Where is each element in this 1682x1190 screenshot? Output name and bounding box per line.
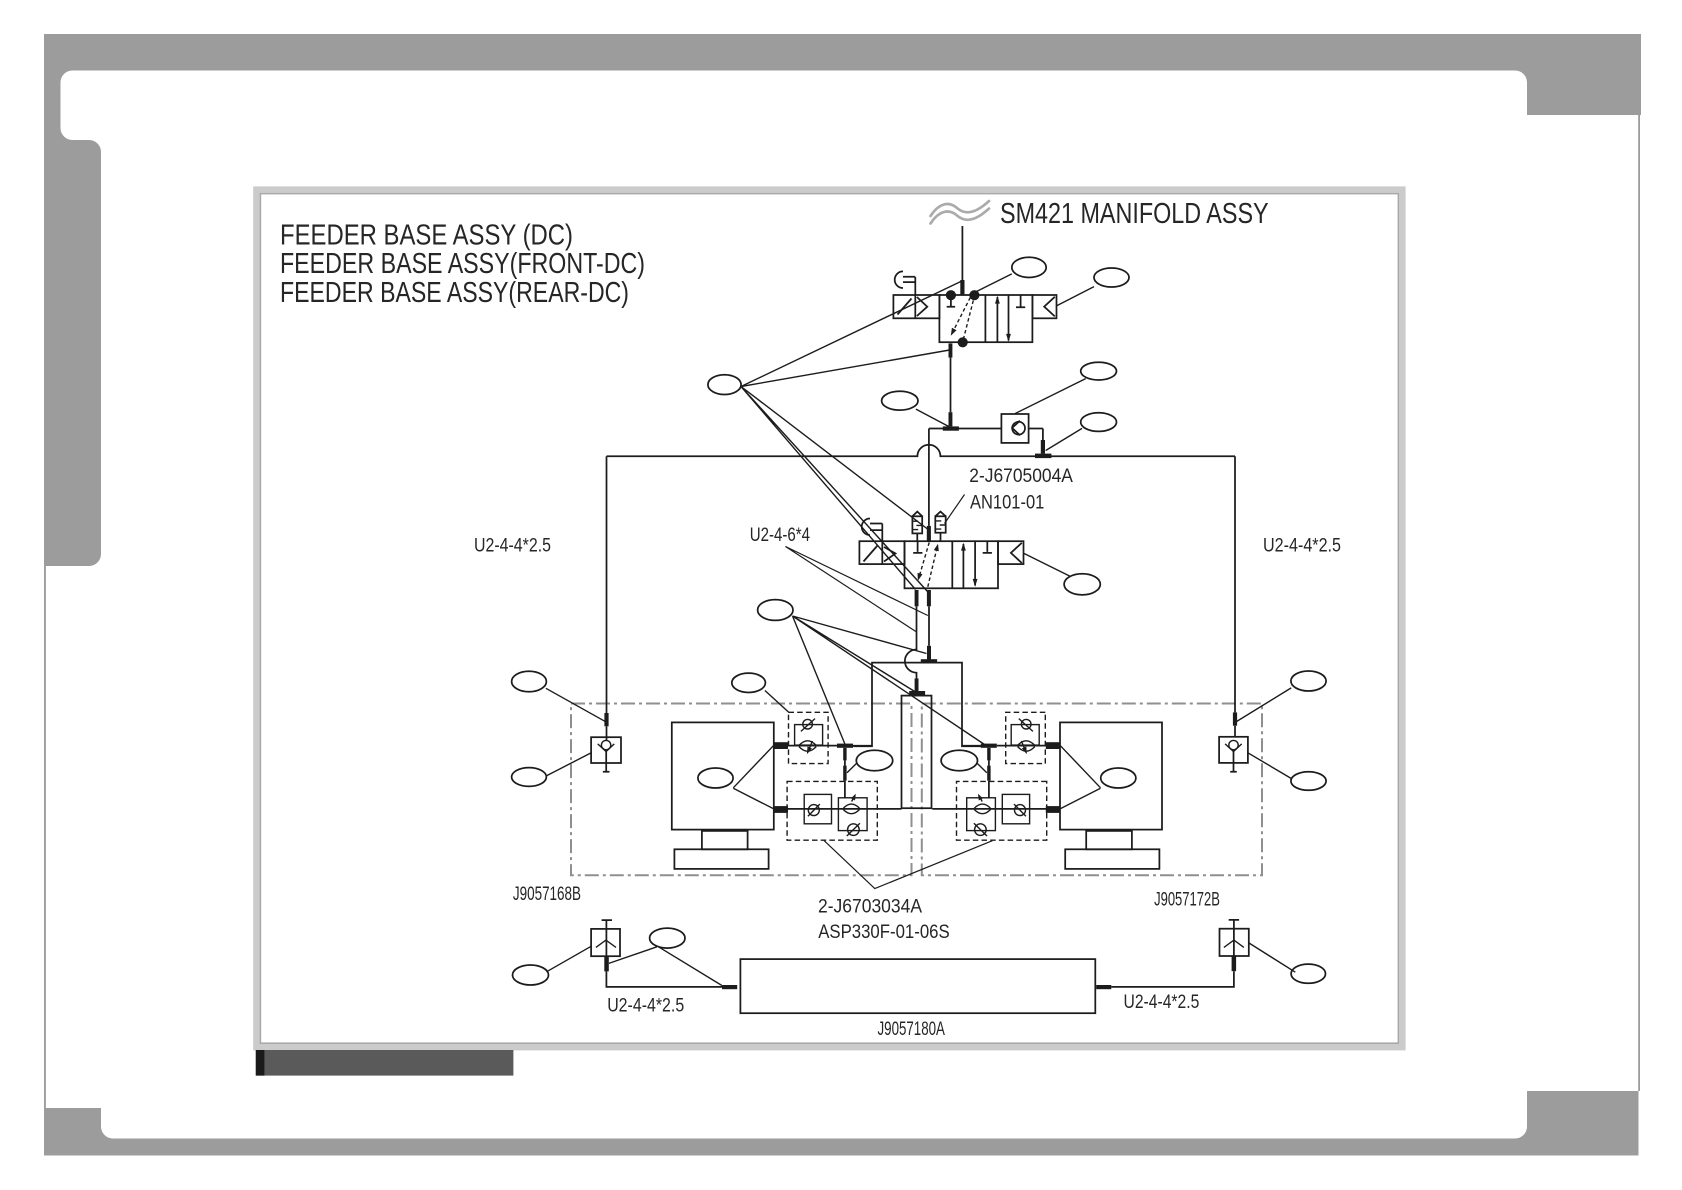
fitting: B-line tee [909,691,925,695]
fitting: branch bar 2 [843,766,846,781]
svg-text:SM421 MANIFOLD ASSY: SM421 MANIFOLD ASSY [1000,198,1269,230]
lower throttle body [838,798,867,831]
lower throttle arrow [852,795,855,801]
valve V2 crossed dashed line B [928,547,938,587]
wire: fitting gap left column [606,726,608,740]
svg-text:2-J6703034A: 2-J6703034A [818,896,922,918]
leaders from FB2 [793,616,985,745]
callout balloon right-top [1291,671,1326,691]
wire: lower flow line [774,808,902,810]
valve V1 left solenoid box [893,295,939,318]
fitting: check branch bar [1041,440,1045,454]
fitting: A-line tee [921,659,937,663]
valve V1 straight flow up arrow [996,297,998,342]
silencer AN101-01 right hat [935,512,945,517]
callout balloon left-top [512,671,547,691]
valve V2 straight flow up arrow [962,544,964,588]
valve V2 straight flow down arrow [974,541,976,585]
valve V1 pilot chevron [917,297,927,316]
diagram border inner dark line [260,194,1398,1044]
fitting: manifold inlet bar [949,412,953,426]
check valve ball [1012,422,1025,435]
svg-text:U2-4-4*2.5: U2-4-4*2.5 [1124,991,1200,1013]
right inlet check seat V [1225,744,1242,752]
wire: supply drop to valve V2 [928,429,930,526]
valve V1 right pilot box [1032,295,1056,318]
page frame: fillet column to left tab [61,128,73,140]
lower check slash [808,804,820,816]
svg-text:FEEDER BASE ASSY(REAR-DC): FEEDER BASE ASSY(REAR-DC) [280,277,629,309]
fitting: branch bar 1 [843,748,846,761]
valve V1 manual override semicircle [895,271,903,288]
callout balloon B4 [1081,413,1117,432]
page frame: fillet bar to bottom-right block [1515,1127,1527,1139]
fitting: upper tee [837,744,853,748]
wire: branch drop [844,760,846,797]
callout balloon right-bottom [1291,772,1326,791]
fan balloon FB2 [758,600,793,621]
wire: bottom-right run [1111,971,1234,987]
leader B3 to check valve box [1015,379,1086,414]
sub-manifold inner channel [902,696,932,809]
cylinder callout balloon [698,768,733,788]
cylinder port B fitting [774,806,788,813]
svg-text:U2-4-6*4: U2-4-6*4 [750,524,810,546]
bottom manifold J9057180A [740,959,1095,1013]
valve V1 solenoid slash [898,299,912,315]
lower ball slash [847,823,860,836]
right inlet stub and cap [1230,752,1237,772]
valve V2 manual override semicircle [862,519,870,536]
wire: supply drop from break mark [961,226,963,281]
callout balloon B5 [1064,574,1100,595]
leader right-top balloon [1237,688,1292,722]
leader B4 to branch fitting [1046,428,1082,450]
lower check body [804,794,831,823]
black end of accent bar [256,1050,265,1076]
check valve box 2-J6705004A [1001,414,1028,443]
wire: left column drop [606,456,608,713]
wire: upper manifold run [929,429,1043,441]
speed controller lower dashed box [787,781,877,840]
valve V2 blocked port T mid [983,541,992,553]
callout balloon B3 [1081,362,1117,380]
sub-manifold outer channel [853,663,981,747]
fitting: right column into box [1233,712,1237,725]
dash-dot box J9057172B [922,704,1262,876]
valve V2 body [905,541,999,588]
leaders cylinder balloon to ports [733,745,774,809]
svg-text:J9057172B: J9057172B [1154,889,1220,911]
callout balloon B1 [1012,257,1046,277]
leader left-bottom balloon [546,753,591,776]
callout balloon bottom-left [513,965,549,985]
fitting below bottom-right square [1232,956,1237,971]
valve V1 override link lines [903,277,915,295]
fitting: A-line bar [927,646,931,660]
bottom-left relief square [591,929,620,956]
leader bottom-right balloon [1249,943,1296,972]
controller inner body [795,725,823,746]
valve V1 port dot 2 [969,290,979,300]
wire: right column drop [1234,456,1236,712]
page frame: left thin line [44,566,46,1108]
controller throttle lens [799,741,816,751]
fitting: manifold inlet tee [943,426,959,430]
valve V2 blocked port T left [913,541,922,553]
silencer right stripes [935,521,945,529]
fitting: B-line bar [915,679,919,692]
valve V1 crossed flow dashed line A [952,298,970,334]
valve V1 crossed flow dashed line B [963,301,973,340]
wire: bottom-left run [606,971,722,987]
valve V1 blocked port T [947,300,955,307]
right feeder circuit (mirror of left) [932,712,1162,869]
check valve seat [1012,421,1020,436]
page frame: bottom bar [44,1139,1639,1156]
controller throttle arrow [808,741,813,753]
valve V2 body divider [951,541,953,588]
page frame: left column [44,34,61,140]
valve V2 right chevron [1011,543,1022,563]
valve V2 arrowhead A [918,573,923,581]
leader branch balloon [847,764,856,773]
bottom-right relief square [1220,929,1249,956]
silencer AN101-01 left hat [912,512,922,517]
callout balloon left-bottom [512,768,547,787]
callout balloon B6 [732,673,766,692]
wire: upper flow line [774,745,872,747]
leader B7 to manifold inlet [916,409,949,427]
svg-text:FEEDER BASE ASSY (DC): FEEDER BASE ASSY (DC) [280,219,573,251]
callout balloon bottom-mid [650,928,685,948]
right inlet check ball [1229,740,1238,749]
bottom-left relief stem and cap [602,920,612,956]
svg-text:U2-4-4*2.5: U2-4-4*2.5 [607,994,684,1016]
wire: V2 A-line [928,606,930,646]
callout balloon B2 [1094,268,1129,287]
valve V1 body divider [984,295,986,342]
dark accent bar under border [256,1050,514,1076]
fitting below valve V2 right [927,590,931,606]
wire: valve V1 to manifold inlet [950,358,952,413]
valve V1 body [939,295,1032,342]
leader B6 to controller box [765,691,789,713]
break (wavy) mark upper [931,201,990,216]
leaders from U2-4-6*4 label [786,547,928,632]
lower ball fitting [848,824,860,836]
callout balloon B7 [882,391,918,410]
left inlet stub and cap [603,752,610,772]
branch callout balloon [856,750,892,771]
valve V1 port dot 1 [946,290,956,300]
svg-text:ASP330F-01-06S: ASP330F-01-06S [818,921,950,943]
fitting: supply into valve V1 [960,280,964,295]
silencer left stem [916,533,918,541]
fitting: valve V2 supply [927,526,931,541]
cylinder base [674,849,768,869]
valve V1 solenoid divider [914,295,916,318]
fitting: left column into box [604,713,608,726]
valve V2 arrowhead B [934,544,939,552]
valve V1 straight flow down arrow [1008,295,1010,341]
svg-text:FEEDER BASE ASSY(FRONT-DC): FEEDER BASE ASSY(FRONT-DC) [280,248,645,280]
callout balloon bottom-right [1291,964,1325,983]
valve V1 flow arrowhead A [951,328,957,336]
leader bottom-left balloon [548,946,592,971]
cylinder pedestal [702,831,748,849]
silencer AN101-01 right body [935,516,945,532]
silencer AN101-01 left body [912,516,922,533]
svg-text:U2-4-4*2.5: U2-4-4*2.5 [474,535,551,557]
svg-text:U2-4-4*2.5: U2-4-4*2.5 [1263,535,1341,557]
speed controller upper dashed box [789,712,829,763]
leaders bottom-mid balloon [609,947,722,986]
silencer right stem [940,533,942,542]
wire: fitting gap right column [1234,726,1236,737]
V-leader from 2-J6703034A label [824,841,992,889]
page frame: right thin line [1638,115,1640,1091]
bottom-left relief chevron [596,940,616,947]
bottom-right relief chevron [1224,940,1244,947]
left inlet check square [591,737,621,763]
left inlet check ball [601,740,610,749]
fan balloon FB1 [708,375,741,395]
valve V1 bottom port dot [958,337,968,347]
break (wavy) mark lower [931,209,990,224]
wire: long rail with hop [607,445,1236,457]
fitting: check branch tee [1035,454,1051,459]
lower check ball [808,805,819,816]
fitting below bottom-left square [604,956,609,971]
leader right-bottom balloon [1248,753,1292,779]
leaders from FB1 [741,282,961,592]
svg-text:AN101-01: AN101-01 [970,492,1044,514]
page frame: bottom-left block [44,1108,101,1156]
valve V2 solenoid slash [864,546,878,562]
page frame: bottom-right block [1527,1091,1639,1156]
valve V2 pilot chevron [884,547,896,562]
leader B2 to pilot box [1057,287,1094,306]
diagram border outer light band [256,190,1402,1048]
cylinder port A fitting [774,742,788,749]
svg-text:J9057168B: J9057168B [513,883,581,905]
svg-text:2-J6705004A: 2-J6705004A [969,465,1073,487]
leader left-top balloon [546,688,605,721]
bottom-right relief stem and cap [1229,920,1239,956]
valve V2 override link lines [870,524,882,542]
left feeder circuit contents [672,712,902,869]
controller check ball [803,719,813,729]
valve V1 right chevron [1044,297,1055,317]
page frame: fillet block to bottom bar [101,1127,113,1139]
fitting: manifold left port [722,985,737,989]
page frame: top bar with top-right tab [44,34,1641,115]
valve V1 blocked port T right [1016,295,1025,307]
page frame: left tab [44,140,101,566]
fitting: manifold right port [1096,985,1111,989]
dash-dot box J9057168B [571,704,912,876]
page frame: fillet bar to left column [61,71,73,83]
valve V2 solenoid divider [881,541,883,564]
fitting below valve V2 left [915,590,919,606]
valve V2 right pilot box [998,541,1024,564]
controller check slash [801,719,815,732]
leader from AN101-01 label [945,495,965,524]
cylinder block [672,722,774,829]
leader B5 to valve V2 [1024,553,1071,576]
valve V2 left solenoid box [859,541,904,564]
left inlet check seat V [598,744,615,752]
leader B1 to valve port [977,274,1012,292]
fitting below valve V1 [949,343,953,357]
wire: V2 B-line with hop [905,606,917,678]
valve V2 crossed dashed line A [919,543,930,579]
silencer left stripes [912,521,922,529]
lower throttle lens [843,804,859,814]
svg-text:J9057180A: J9057180A [878,1018,945,1040]
right inlet check square [1219,737,1248,763]
